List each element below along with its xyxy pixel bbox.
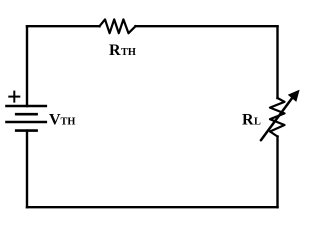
svg-text:TH: TH	[121, 47, 136, 58]
svg-text:R: R	[109, 42, 121, 59]
plus sign (+ terminal)	[9, 92, 19, 102]
resistor R_L zigzag (vertical)	[270, 98, 285, 137]
battery V_TH plate long top	[7, 105, 46, 108]
resistor R_TH zigzag	[100, 19, 136, 33]
svg-text:V: V	[49, 112, 61, 129]
wire top-left segment	[27, 25, 100, 27]
rheostat arrowhead	[289, 91, 298, 101]
battery V_TH plate short upper	[16, 113, 36, 116]
rheostat arrow shaft	[261, 98, 293, 141]
wire left upper segment	[26, 26, 28, 106]
wire bottom segment	[27, 206, 278, 208]
wire left lower segment	[26, 131, 28, 208]
label V_TH	[49, 112, 75, 129]
label R_L	[242, 112, 261, 129]
wire right upper segment	[276, 26, 278, 98]
svg-text:R: R	[242, 112, 254, 129]
wire top-right segment	[136, 25, 278, 27]
svg-text:L: L	[254, 117, 261, 128]
wire right lower segment	[276, 137, 278, 208]
label R_TH	[109, 42, 136, 59]
svg-text:TH: TH	[61, 117, 76, 128]
battery V_TH plate long lower	[7, 121, 46, 124]
battery V_TH plate short bottom	[16, 129, 36, 132]
